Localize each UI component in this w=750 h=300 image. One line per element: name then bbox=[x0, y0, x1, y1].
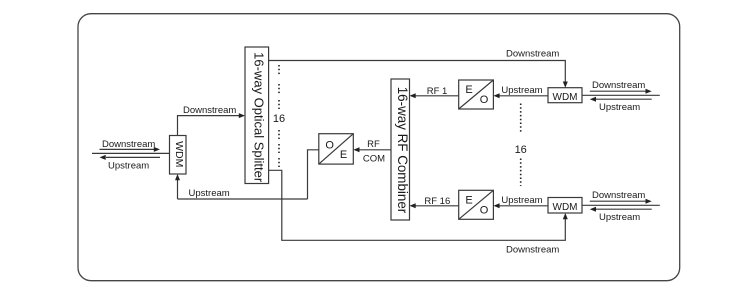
svg-text:E: E bbox=[340, 149, 347, 161]
svg-text:O: O bbox=[480, 204, 489, 216]
svg-text:16: 16 bbox=[273, 113, 285, 125]
svg-text:Downstream: Downstream bbox=[592, 190, 645, 201]
svg-text:E: E bbox=[465, 194, 472, 206]
svg-text:RF: RF bbox=[367, 139, 380, 150]
svg-text:Downstream: Downstream bbox=[102, 139, 155, 150]
svg-text:Downstream: Downstream bbox=[592, 80, 645, 91]
svg-text:Upstream: Upstream bbox=[189, 188, 230, 199]
svg-text:Upstream: Upstream bbox=[599, 212, 640, 223]
svg-text:O: O bbox=[325, 140, 334, 152]
svg-text:Upstream: Upstream bbox=[501, 85, 542, 96]
svg-text:Downstream: Downstream bbox=[506, 245, 559, 256]
svg-text:Downstream: Downstream bbox=[183, 105, 236, 116]
svg-text:RF 16: RF 16 bbox=[424, 196, 450, 207]
svg-text:Upstream: Upstream bbox=[599, 102, 640, 113]
svg-text:Upstream: Upstream bbox=[501, 195, 542, 206]
svg-text:Downstream: Downstream bbox=[506, 49, 559, 60]
svg-text:RF 1: RF 1 bbox=[427, 86, 448, 97]
svg-text:E: E bbox=[465, 84, 472, 96]
svg-text:16-way RF Combiner: 16-way RF Combiner bbox=[395, 87, 410, 214]
svg-text:WDM: WDM bbox=[553, 202, 578, 213]
svg-text:16-way Optical Splitter: 16-way Optical Splitter bbox=[251, 52, 266, 183]
svg-text:WDM: WDM bbox=[173, 141, 185, 167]
svg-text:Upstream: Upstream bbox=[108, 160, 149, 171]
svg-text:WDM: WDM bbox=[553, 92, 578, 103]
svg-text:O: O bbox=[480, 94, 489, 106]
svg-text:COM: COM bbox=[363, 154, 385, 165]
svg-text:16: 16 bbox=[515, 144, 527, 156]
